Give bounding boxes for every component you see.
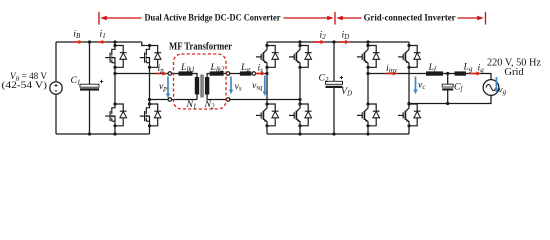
wire Lg to grid (466, 74, 491, 80)
transistor Q4 (MOSFET, bridge1 bottom-right) (140, 102, 161, 127)
capacitor Cf branch wire (447, 74, 449, 104)
svg-text:MF Transformer: MF Transformer (169, 42, 232, 53)
wire winding N2 bottom (206, 95, 208, 100)
capacitor Cf (442, 84, 453, 87)
current arrow i2 (314, 41, 321, 43)
svg-text:iD: iD (342, 29, 350, 41)
svg-text:Llk1: Llk1 (180, 62, 195, 74)
svg-text:N1: N1 (186, 99, 197, 111)
current arrow iB (74, 41, 79, 43)
svg-text:vs: vs (235, 81, 242, 93)
voltage arrow vc (415, 77, 417, 90)
voltage arrow vg (495, 77, 497, 89)
node secondary bottom terminal (226, 98, 230, 102)
wire secondary bottom (207, 99, 226, 101)
node inverter right leg bottom tap (407, 102, 410, 105)
wire left source branch (55, 42, 57, 134)
svg-text:iB: iB (73, 28, 81, 40)
svg-text:Grid-connected Inverter: Grid-connected Inverter (364, 13, 456, 23)
svg-text:Lf: Lf (428, 62, 437, 74)
current arrow is (256, 73, 262, 75)
header span inverter: right arrow (458, 17, 479, 19)
wire primary bottom (150, 99, 169, 101)
svg-text:vp: vp (159, 81, 167, 93)
svg-text:La: La (240, 62, 250, 74)
node inverter left leg mid tap (366, 72, 369, 75)
transistor Q10 (IGBT, inverter top-right) (398, 44, 421, 69)
transistor Q2 (MOSFET, bridge1 top-right) (140, 44, 161, 69)
plus sign C1 (100, 80, 103, 83)
node La right terminal (252, 72, 256, 76)
node inverter left leg rail (366, 40, 369, 43)
svg-text:iinv: iinv (386, 63, 398, 75)
inductor Llk1 (179, 71, 193, 75)
svg-text:Cf: Cf (454, 82, 464, 94)
wire inverter left leg (367, 42, 369, 134)
node C1 top (88, 40, 91, 43)
svg-text:Dual Active Bridge DC-DC Conve: Dual Active Bridge DC-DC Converter (145, 13, 281, 23)
transformer secondary winding N2 (205, 77, 209, 95)
current arrow ig (469, 73, 477, 75)
wire Llk1 to winding (193, 74, 198, 78)
svg-text:Lg: Lg (463, 62, 473, 74)
header span inverter: right bar (485, 12, 487, 25)
svg-text:i1: i1 (100, 28, 106, 40)
node C2 bottom (332, 132, 335, 135)
svg-text:C1: C1 (71, 75, 81, 87)
wire inverter output top (368, 73, 426, 75)
wire Lf to Lg (443, 73, 455, 75)
wire bridge1 left leg (114, 42, 116, 134)
node C2 top (332, 40, 335, 43)
node secondary top terminal (226, 72, 230, 76)
transistor Q3 (MOSFET, bridge1 bottom-left) (105, 102, 126, 127)
node Cf top tap (446, 72, 449, 75)
node C1 bottom (88, 132, 91, 135)
svg-text:ip: ip (158, 63, 165, 75)
node bridge1 right leg bottom tap (148, 98, 151, 101)
header span DAB: left bar (98, 12, 100, 25)
capacitor C2 (326, 81, 343, 84)
wire top rail right section (267, 41, 409, 43)
node bridge1 left leg rail (113, 40, 116, 43)
transistor Q1 (MOSFET, bridge1 top-left) (105, 44, 126, 69)
MF transformer dashed box (174, 54, 227, 109)
transistor Q11 (IGBT, inverter bottom-left) (357, 102, 380, 127)
wire inverter right leg (408, 42, 410, 134)
svg-text:(42-54 V): (42-54 V) (2, 80, 48, 91)
wire bottom rail right section (267, 133, 409, 135)
svg-text:vsq: vsq (252, 80, 263, 92)
svg-text:N2: N2 (204, 99, 216, 111)
voltage arrow vsq (264, 76, 266, 92)
wire bridge2 left leg (266, 42, 268, 134)
voltage arrow vs (230, 77, 232, 90)
current arrow ip (157, 73, 163, 75)
node bridge1 left leg bottom rail (113, 132, 116, 135)
svg-text:vc: vc (418, 80, 425, 92)
header span DAB: right arrow (284, 17, 329, 19)
svg-text:ig: ig (478, 63, 485, 75)
node primary top terminal (168, 72, 172, 76)
node bridge2 right leg bottom rail (298, 132, 301, 135)
transistor Q8 (IGBT, bridge2 bottom-right) (289, 102, 312, 127)
transistor Q9 (IGBT, inverter top-left) (357, 44, 380, 69)
wire capacitor C2 branch (333, 42, 335, 134)
transistor Q5 (IGBT, bridge2 top-left) (256, 44, 279, 69)
svg-text:Grid: Grid (504, 67, 524, 78)
node bridge1 left leg mid tap (113, 72, 116, 75)
node inverter left leg bottom rail (366, 132, 369, 135)
node bridge2 left leg mid tap (265, 72, 268, 75)
capacitor C1 (80, 84, 99, 87)
transistor Q12 (IGBT, inverter bottom-right) (398, 102, 421, 127)
node bridge2 right leg rail (298, 40, 301, 43)
node bridge2 right leg bottom tap (298, 98, 301, 101)
plus sign C2 (340, 76, 343, 79)
wire grid bottom return (409, 95, 491, 103)
header span inverter: left arrow (342, 17, 362, 19)
wire bottom rail left section (56, 133, 150, 135)
wire winding N1 bottom (196, 95, 198, 100)
header span DAB: left arrow (106, 17, 142, 19)
svg-text:is: is (258, 63, 264, 75)
inductor Llk2 (210, 71, 224, 75)
inductor Lf (426, 71, 443, 75)
wire bridge2 right leg (299, 42, 301, 134)
svg-text:VD: VD (341, 86, 352, 98)
transistor Q6 (IGBT, bridge2 top-right) (289, 44, 312, 69)
current arrow iD (339, 41, 346, 43)
voltage arrow vp (167, 77, 169, 94)
source V_B (50, 82, 62, 94)
node primary bottom terminal (168, 98, 172, 102)
svg-text:Llk2: Llk2 (210, 62, 225, 74)
svg-text:i2: i2 (320, 29, 327, 41)
svg-text:vg: vg (498, 85, 506, 97)
header span divider bar (334, 12, 336, 25)
node Cf bottom tap (446, 102, 449, 105)
wire capacitor C1 branch (89, 42, 91, 134)
wire top rail left section (56, 42, 150, 46)
wire winding to Llk2 (207, 74, 210, 78)
transistor Q7 (IGBT, bridge2 bottom-left) (256, 102, 279, 127)
svg-text:C2: C2 (319, 73, 330, 85)
current arrow i1 (98, 41, 102, 43)
wire bridge1 right leg (149, 67, 151, 134)
inductor La (240, 71, 252, 75)
grid AC source (483, 80, 499, 96)
current arrow iinv (386, 73, 393, 75)
transformer primary winding N1 (195, 77, 199, 95)
wire primary top (115, 73, 168, 75)
transformer core (201, 75, 203, 98)
inductor Lg (455, 71, 467, 75)
